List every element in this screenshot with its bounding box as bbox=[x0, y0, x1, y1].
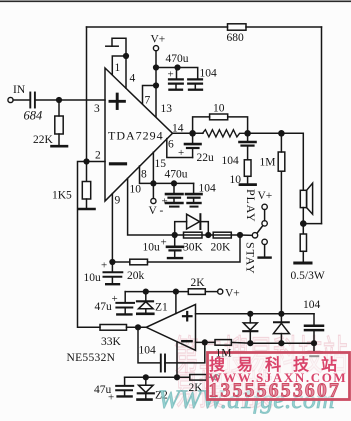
svg-text:Z1: Z1 bbox=[155, 302, 168, 314]
ground under 0.5/3W bbox=[295, 262, 311, 265]
pin 9 wire bbox=[111, 194, 113, 262]
ground under 47u bottom bbox=[118, 395, 132, 397]
pin 2 minus symbol bbox=[111, 162, 126, 165]
U2 plus symbol bbox=[183, 312, 192, 320]
svg-text:2: 2 bbox=[95, 150, 101, 162]
wire output to speaker bbox=[248, 133, 304, 190]
diode D3 bbox=[243, 314, 257, 343]
svg-text:33K: 33K bbox=[101, 336, 122, 348]
svg-text:10: 10 bbox=[130, 184, 142, 196]
zener Z1 bbox=[137, 292, 153, 313]
wire pin1 bracket bbox=[112, 38, 126, 56]
wire U2 vminus drop bbox=[176, 342, 178, 377]
wire V+ cap row bbox=[156, 68, 198, 80]
node 104 bottom junction bbox=[311, 340, 317, 346]
resistor 1M servo bbox=[215, 340, 231, 346]
svg-text:+: + bbox=[168, 69, 174, 81]
resistor 20K bbox=[213, 232, 231, 238]
wire R22K to ground bbox=[58, 134, 60, 145]
wire right drop to speaker bottom bbox=[321, 27, 323, 224]
switch S1 play contact bbox=[262, 221, 267, 226]
resistor 10 zobel bbox=[244, 160, 251, 177]
node switch junction bbox=[237, 232, 243, 238]
svg-text:104: 104 bbox=[222, 155, 240, 167]
node mute-left junction bbox=[172, 232, 178, 238]
svg-text:10u: 10u bbox=[143, 242, 161, 254]
switch S1 common contact bbox=[252, 233, 257, 238]
wire U2 plus input rail bbox=[196, 313, 315, 315]
node V- terminal bottom bbox=[214, 375, 219, 380]
node U2 output junction bbox=[135, 324, 141, 330]
wire C684 to pin3 bbox=[36, 99, 105, 101]
svg-text:TDA7294: TDA7294 bbox=[108, 129, 164, 143]
capacitor 104 V- bbox=[186, 183, 202, 202]
node 470u junction bbox=[174, 64, 180, 70]
ground under 470u V+ bbox=[169, 89, 182, 91]
capacitor 104 servo bbox=[138, 327, 205, 371]
wire 1M to bottom rail bbox=[231, 341, 250, 344]
ground under 10u pin9 bbox=[106, 283, 119, 285]
svg-text:V -: V - bbox=[149, 205, 164, 217]
node pin15 junction bbox=[150, 180, 156, 186]
resistor 20k bbox=[130, 259, 148, 265]
ground under 104 V- bbox=[188, 203, 201, 207]
svg-text:V+: V+ bbox=[151, 34, 166, 46]
capacitor 47u top bbox=[116, 292, 134, 314]
wire top feedback run to R680 bbox=[87, 26, 228, 28]
ground under 1K5 bbox=[79, 208, 95, 211]
wire U2 supply row bottom bbox=[125, 376, 190, 378]
wire IN to C684 bbox=[13, 99, 29, 101]
node U2 vminus junction bbox=[174, 374, 180, 380]
ground under 10u mute bbox=[168, 257, 182, 259]
pin 4 wire bbox=[125, 56, 127, 88]
node 470u V- junction bbox=[171, 180, 177, 186]
pin 15 wire bbox=[152, 152, 154, 183]
wire U2 vplus drop bbox=[175, 292, 177, 314]
node V+ switch terminal bbox=[262, 204, 267, 209]
svg-text:14: 14 bbox=[172, 123, 184, 135]
op-amp U2 NE5532N bbox=[146, 304, 195, 350]
svg-text:47u: 47u bbox=[95, 301, 113, 313]
wire feedback vertical rail bbox=[86, 27, 88, 162]
pin 7 wire bbox=[143, 86, 157, 104]
svg-text:1K5: 1K5 bbox=[52, 190, 72, 202]
svg-text:STAY: STAY bbox=[244, 242, 258, 274]
resistor 2K top bbox=[188, 289, 205, 295]
wire bottom diode rail bbox=[250, 342, 314, 344]
svg-text:9: 9 bbox=[115, 195, 121, 207]
svg-text:6: 6 bbox=[168, 139, 174, 151]
svg-text:22K: 22K bbox=[33, 134, 54, 146]
pin 10 wire to mute row bbox=[128, 178, 240, 235]
svg-text:+: + bbox=[108, 392, 114, 404]
resistor 680 bbox=[228, 24, 247, 30]
pin 13 wire bbox=[155, 86, 157, 117]
wire V- terminal drop bbox=[152, 183, 154, 198]
capacitor C 104 V+ bbox=[188, 79, 202, 88]
node pin9 junction bbox=[109, 259, 115, 265]
diode D1 bypass bbox=[175, 214, 209, 235]
wire R680 to right drop bbox=[246, 26, 322, 28]
svg-text:7: 7 bbox=[145, 95, 151, 107]
svg-text:10: 10 bbox=[213, 103, 225, 115]
svg-text:+: + bbox=[178, 147, 184, 159]
capacitor 470u V- bbox=[166, 183, 183, 202]
node speaker bottom junction bbox=[300, 220, 307, 227]
svg-text:13: 13 bbox=[161, 103, 173, 115]
capacitor C 470u V+ bbox=[169, 68, 183, 89]
node mute-right junction bbox=[205, 232, 211, 238]
svg-text:10: 10 bbox=[230, 174, 242, 186]
ground under Z2 bbox=[138, 398, 152, 401]
node D3 top junction bbox=[247, 311, 253, 317]
pin 1 riser bbox=[112, 56, 126, 75]
svg-text:684: 684 bbox=[24, 109, 43, 123]
pin 8 wire bbox=[140, 166, 194, 183]
node 1M junction bbox=[278, 130, 285, 137]
resistor 22K bbox=[55, 116, 63, 134]
ground stay bbox=[259, 256, 271, 258]
node zobel junction bbox=[244, 130, 251, 137]
wire U2 output to 33K bbox=[127, 326, 147, 328]
wire pin2 node to 1K5 bbox=[86, 162, 88, 182]
wire switch to 20k row bbox=[148, 235, 241, 262]
svg-text:470u: 470u bbox=[165, 169, 188, 181]
svg-text:+: + bbox=[161, 237, 167, 249]
capacitor 104 zobel bbox=[240, 133, 256, 160]
wire 1K5 to ground bbox=[86, 199, 88, 208]
node pin1 junction bbox=[123, 53, 129, 59]
capacitor 10u pin9 bbox=[104, 262, 123, 283]
capacitor 10u mute bbox=[167, 235, 183, 257]
ground under 47u top bbox=[117, 313, 131, 315]
svg-text:470u: 470u bbox=[166, 53, 189, 65]
svg-text:+: + bbox=[101, 260, 107, 272]
node V+ terminal bottom bbox=[218, 289, 223, 294]
op-amp U1 TDA7294 bbox=[105, 68, 173, 201]
wire speaker to node bbox=[302, 208, 304, 224]
resistor 0.5/3W bbox=[300, 224, 306, 262]
node Z2 junction bbox=[143, 374, 149, 380]
wire 20k to pin9 node bbox=[112, 261, 129, 263]
node U2 vplus junction bbox=[173, 289, 179, 295]
svg-text:NE5532N: NE5532N bbox=[67, 352, 116, 364]
wire U2 supply row top bbox=[125, 291, 188, 293]
svg-text:V+: V+ bbox=[225, 288, 240, 300]
zener Z2 bbox=[138, 377, 154, 398]
node D4 bottom junction bbox=[278, 340, 284, 346]
svg-text:PLAY: PLAY bbox=[244, 189, 258, 222]
svg-text:V+: V+ bbox=[258, 190, 273, 202]
svg-text:13555653607: 13555653607 bbox=[209, 381, 342, 402]
capacitor 47u bottom bbox=[116, 377, 133, 395]
svg-text:4: 4 bbox=[130, 73, 136, 85]
ground under Z1 bbox=[137, 312, 153, 315]
wire stay contact down bbox=[264, 245, 266, 257]
node minus input junction bbox=[202, 339, 208, 345]
svg-text:20K: 20K bbox=[211, 242, 232, 254]
node V- terminal bbox=[151, 198, 156, 203]
svg-text:0.5/3W: 0.5/3W bbox=[291, 270, 325, 282]
node input junction bbox=[56, 97, 62, 103]
svg-text:1: 1 bbox=[115, 62, 121, 74]
ground bottom right bbox=[307, 343, 322, 356]
pin 3 plus symbol bbox=[110, 94, 124, 108]
resistor zigzag 10 output bbox=[203, 130, 248, 137]
svg-text:30K: 30K bbox=[183, 242, 204, 254]
ground under 470u V- bbox=[166, 203, 183, 207]
node IN terminal bbox=[8, 97, 13, 102]
svg-text:8: 8 bbox=[141, 169, 147, 181]
wire 2K to V+ terminal bbox=[205, 291, 217, 293]
wire servo rail pin2 to 33K bbox=[78, 162, 101, 328]
resistor 2K bottom bbox=[190, 375, 207, 381]
ground under 104 V+ bbox=[189, 89, 202, 91]
resistor 1K5 bbox=[82, 182, 90, 200]
resistor 30K bbox=[184, 232, 203, 238]
wire zobel to ground bbox=[247, 176, 249, 183]
svg-text:2K: 2K bbox=[191, 277, 206, 289]
node D4 top junction bbox=[278, 311, 284, 317]
svg-text:20k: 20k bbox=[127, 270, 145, 282]
resistor 10 box parallel bbox=[193, 114, 248, 133]
svg-text:680: 680 bbox=[227, 32, 245, 44]
svg-text:1M: 1M bbox=[260, 157, 276, 169]
watermark red box bbox=[208, 353, 350, 400]
wire pin6 loop bbox=[167, 139, 193, 158]
wire play contact to V+ bbox=[264, 210, 266, 221]
node D3 bottom junction bbox=[247, 340, 253, 346]
capacitor 104 bottom right bbox=[305, 314, 323, 343]
capacitor 684 bbox=[30, 93, 35, 108]
node output junction bbox=[189, 130, 196, 137]
svg-text:104: 104 bbox=[303, 299, 321, 311]
wire pin1 tick bbox=[106, 45, 118, 47]
ground zobel bbox=[240, 183, 256, 186]
switch S1 lever bbox=[257, 226, 263, 234]
svg-text:+: + bbox=[112, 293, 118, 305]
node pin2 junction bbox=[83, 158, 89, 164]
svg-text:104: 104 bbox=[139, 345, 157, 357]
pin 14 output wire bbox=[173, 132, 204, 134]
switch S1 stay contact bbox=[262, 239, 267, 244]
scan border top bbox=[0, 0, 351, 2]
wire junction to R22K bbox=[58, 100, 60, 116]
wire V+ down bbox=[155, 51, 157, 86]
svg-text:IN: IN bbox=[13, 84, 26, 96]
capacitor 22u bootstrap bbox=[185, 133, 201, 157]
ground under 22K bbox=[52, 145, 68, 148]
svg-text:104: 104 bbox=[200, 68, 218, 80]
node V+ terminal bbox=[153, 46, 158, 51]
switch S1 common wire bbox=[240, 234, 252, 236]
speaker SP bbox=[300, 183, 312, 214]
svg-text:10u: 10u bbox=[84, 272, 102, 284]
node Z1 junction bbox=[143, 289, 149, 295]
wire pin2 bbox=[87, 161, 106, 163]
node pin7 junction bbox=[153, 82, 159, 88]
svg-text:3: 3 bbox=[94, 103, 100, 115]
wire U2 minus input bbox=[196, 341, 216, 343]
diode D4 bbox=[273, 314, 289, 343]
svg-text:22u: 22u bbox=[197, 152, 215, 164]
svg-text:104: 104 bbox=[199, 183, 217, 195]
node V+ cap junction bbox=[153, 64, 159, 70]
wire 2K bottom to terminal bbox=[207, 376, 214, 378]
resistor 33K bbox=[100, 325, 127, 331]
U2 minus symbol bbox=[182, 340, 191, 342]
resistor 1M vertical bbox=[278, 133, 285, 313]
